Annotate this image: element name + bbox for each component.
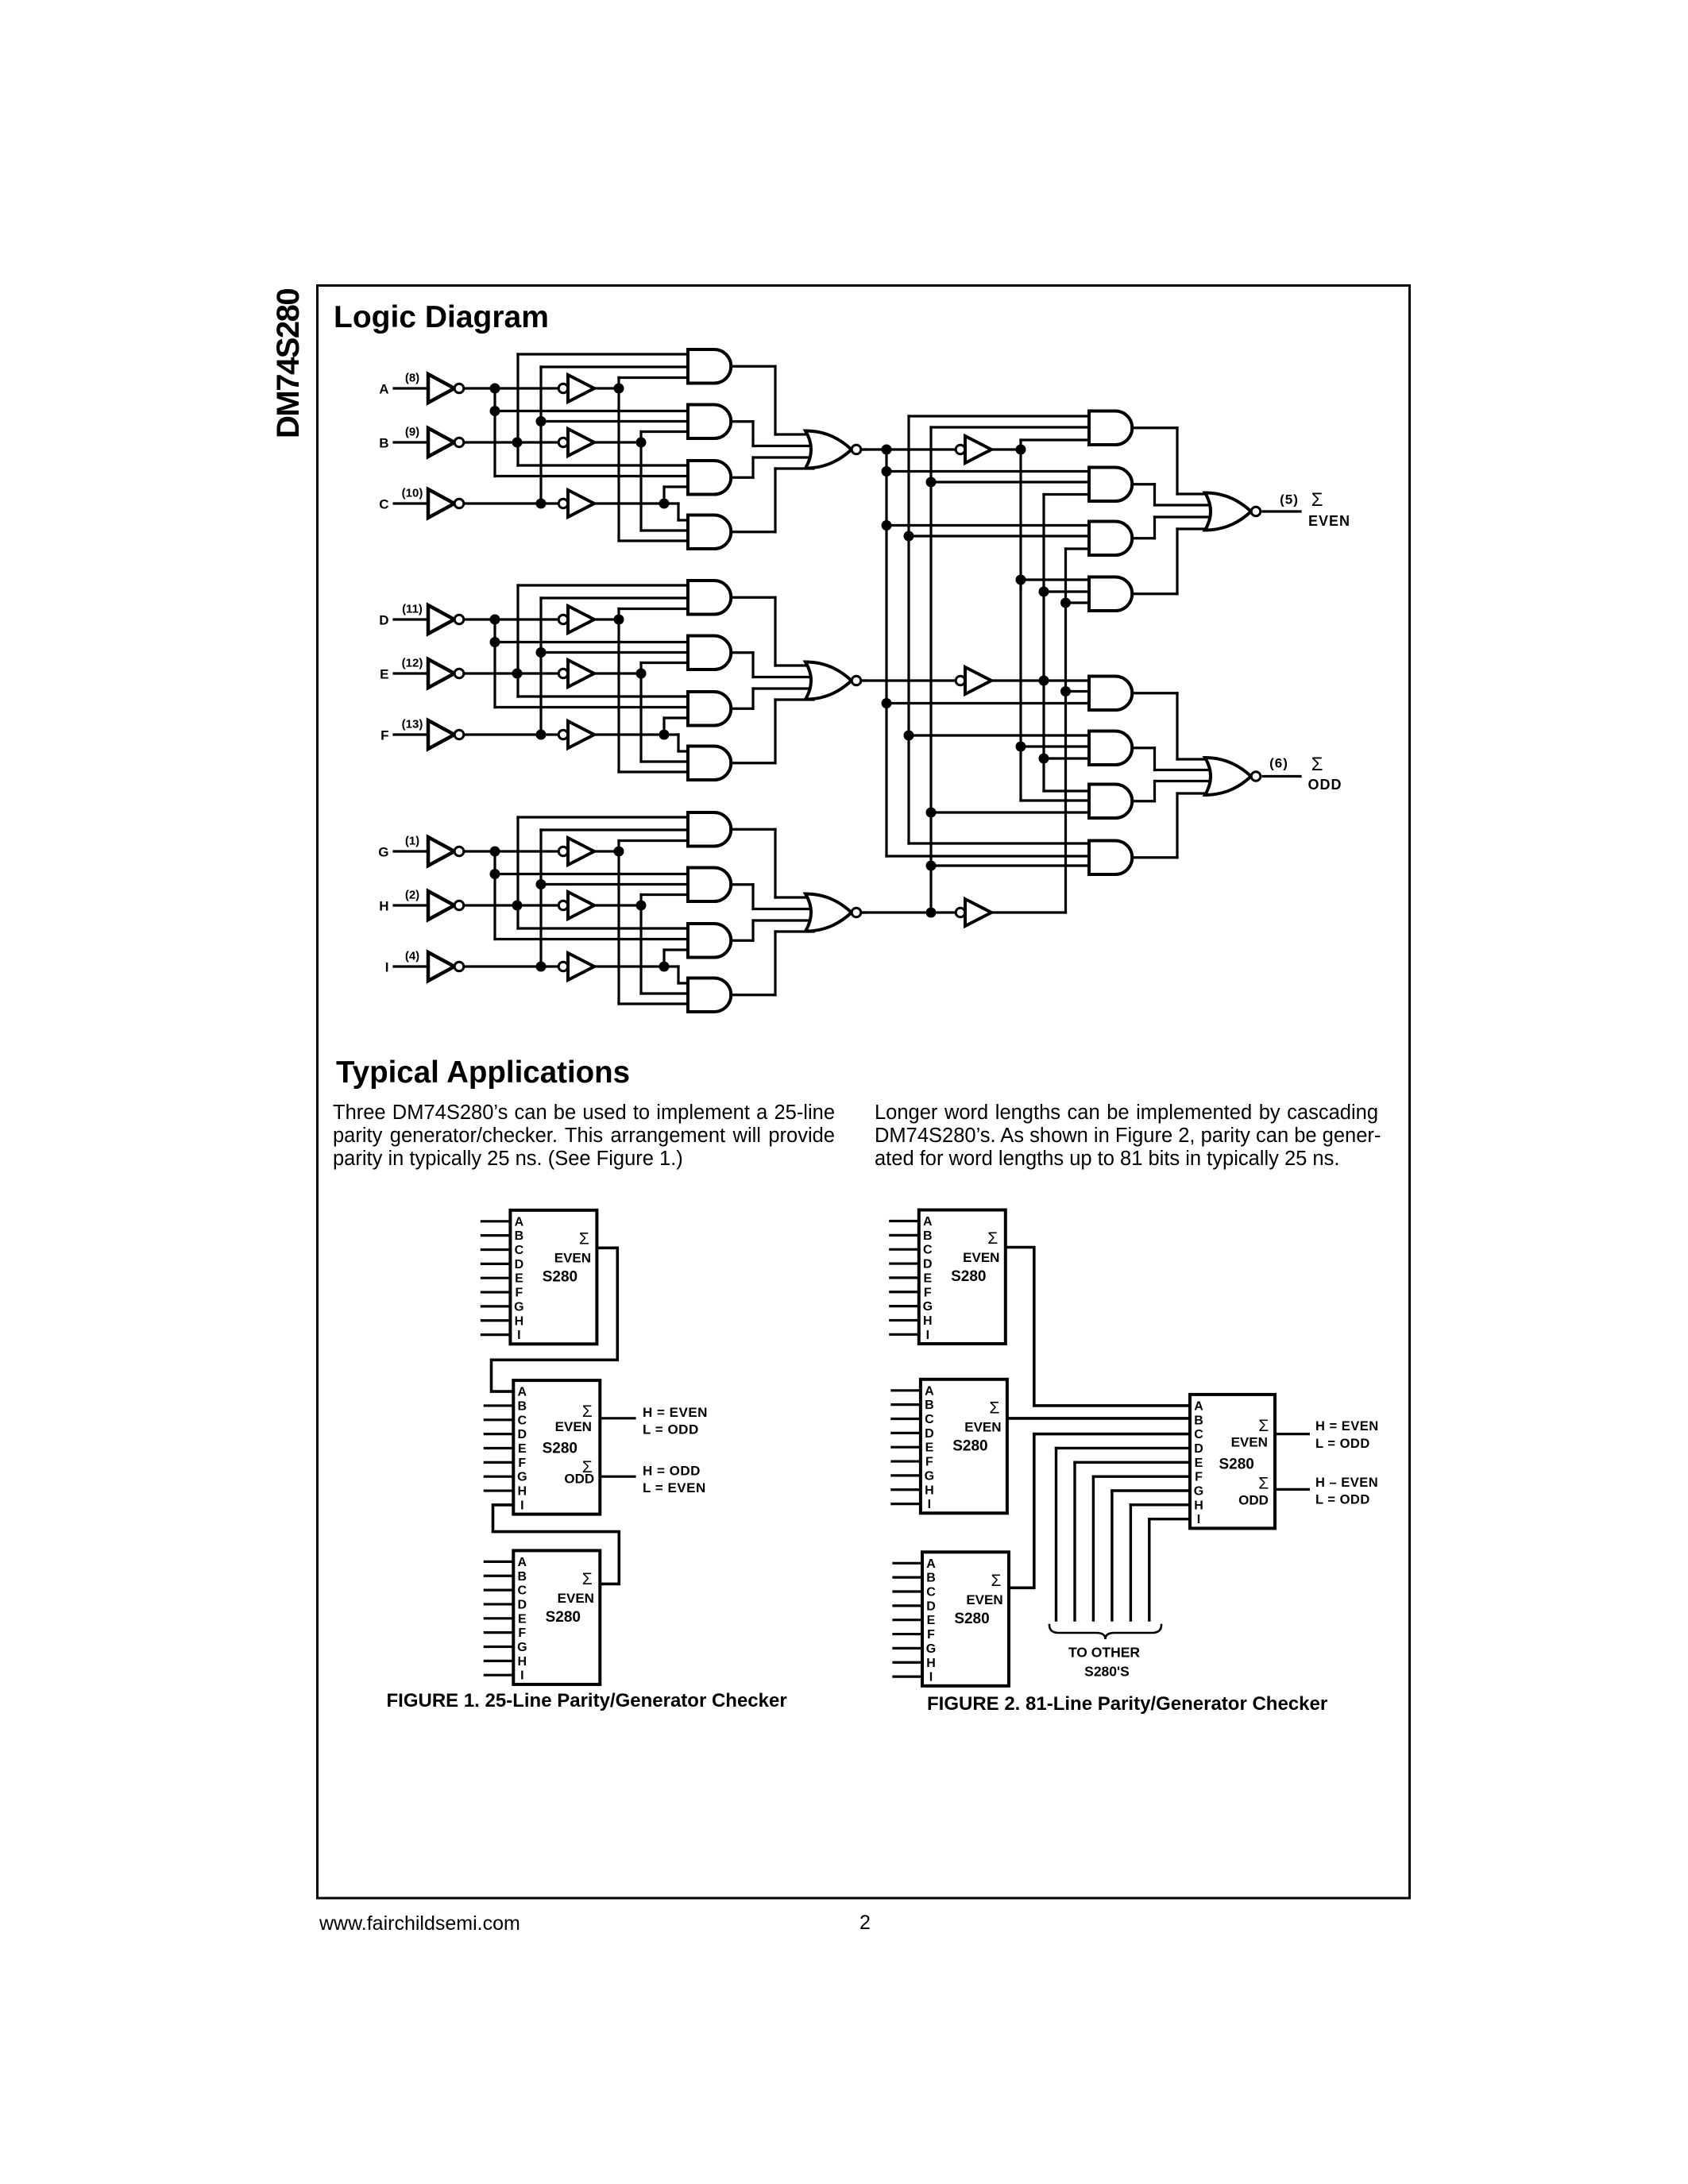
svg-text:(5): (5) <box>1280 492 1299 507</box>
svg-text:S280: S280 <box>546 1609 581 1626</box>
svg-text:Σ: Σ <box>579 1229 589 1248</box>
svg-text:E: E <box>518 1612 527 1626</box>
svg-text:L = EVEN: L = EVEN <box>643 1480 706 1495</box>
svg-text:S280: S280 <box>543 1441 577 1457</box>
svg-text:ODD: ODD <box>1238 1492 1269 1507</box>
svg-text:(6): (6) <box>1269 756 1288 771</box>
svg-text:H = EVEN: H = EVEN <box>643 1405 708 1420</box>
svg-text:Σ: Σ <box>1311 489 1323 511</box>
svg-text:D: D <box>518 1428 527 1441</box>
svg-text:H: H <box>925 1484 934 1497</box>
svg-text:D: D <box>379 613 388 628</box>
svg-text:(10): (10) <box>402 487 423 500</box>
svg-text:EVEN: EVEN <box>963 1250 999 1265</box>
svg-text:F: F <box>924 1286 932 1299</box>
svg-text:EVEN: EVEN <box>966 1592 1002 1607</box>
svg-text:E: E <box>1195 1457 1203 1470</box>
svg-text:S280: S280 <box>951 1268 986 1285</box>
svg-text:C: C <box>923 1244 933 1257</box>
svg-text:G: G <box>514 1300 523 1314</box>
svg-text:EVEN: EVEN <box>964 1419 1001 1434</box>
svg-text:F: F <box>380 728 388 743</box>
svg-text:A: A <box>515 1215 524 1229</box>
svg-text:S280'S: S280'S <box>1084 1664 1130 1680</box>
svg-text:F: F <box>518 1457 526 1470</box>
svg-text:B: B <box>379 436 388 451</box>
svg-text:E: E <box>927 1614 936 1627</box>
svg-text:G: G <box>925 1469 934 1483</box>
svg-text:ODD: ODD <box>564 1472 594 1487</box>
svg-text:(11): (11) <box>402 603 423 616</box>
svg-text:S280: S280 <box>954 1611 989 1627</box>
svg-text:A: A <box>925 1384 934 1398</box>
svg-text:D: D <box>1194 1442 1203 1456</box>
svg-text:Σ: Σ <box>991 1572 1002 1590</box>
svg-text:A: A <box>379 382 388 397</box>
svg-text:S280: S280 <box>543 1268 577 1285</box>
svg-text:Σ: Σ <box>989 1399 999 1417</box>
svg-text:D: D <box>518 1598 527 1611</box>
svg-text:G: G <box>1194 1485 1203 1499</box>
svg-text:H: H <box>379 899 388 914</box>
svg-text:Σ: Σ <box>582 1570 593 1588</box>
svg-text:EVEN: EVEN <box>555 1419 592 1434</box>
svg-text:I: I <box>385 960 389 975</box>
svg-text:C: C <box>515 1244 524 1257</box>
svg-text:I: I <box>1197 1513 1200 1526</box>
svg-text:(1): (1) <box>405 835 419 848</box>
svg-text:I: I <box>926 1329 929 1342</box>
svg-text:H: H <box>515 1314 524 1328</box>
svg-text:FIGURE 2. 81-Line Parity/Gener: FIGURE 2. 81-Line Parity/Generator Check… <box>927 1693 1327 1715</box>
svg-text:H: H <box>1194 1499 1203 1512</box>
svg-text:E: E <box>380 667 388 682</box>
svg-text:C: C <box>926 1586 936 1599</box>
svg-text:G: G <box>517 1641 527 1654</box>
svg-text:F: F <box>516 1287 523 1300</box>
svg-text:Σ: Σ <box>582 1403 593 1421</box>
svg-text:EVEN: EVEN <box>1308 513 1350 529</box>
svg-text:D: D <box>926 1599 936 1613</box>
svg-text:L = ODD: L = ODD <box>1315 1493 1370 1507</box>
svg-text:A: A <box>1194 1399 1203 1413</box>
svg-text:F: F <box>925 1456 933 1469</box>
svg-text:B: B <box>1194 1414 1203 1427</box>
svg-text:Σ: Σ <box>1311 754 1323 775</box>
svg-text:G: G <box>517 1471 527 1484</box>
svg-text:(12): (12) <box>402 657 423 670</box>
svg-text:B: B <box>926 1572 936 1585</box>
svg-text:C: C <box>379 497 388 512</box>
svg-text:(9): (9) <box>405 426 419 439</box>
svg-text:(2): (2) <box>405 889 419 902</box>
svg-text:C: C <box>925 1413 934 1426</box>
svg-text:Σ: Σ <box>1258 1474 1269 1492</box>
svg-text:F: F <box>518 1626 526 1640</box>
svg-text:I: I <box>520 1499 523 1512</box>
svg-text:B: B <box>518 1570 527 1584</box>
svg-text:H: H <box>923 1314 933 1328</box>
svg-text:EVEN: EVEN <box>558 1591 594 1606</box>
svg-text:Σ: Σ <box>987 1229 998 1248</box>
svg-text:I: I <box>520 1669 523 1683</box>
svg-text:B: B <box>515 1229 524 1243</box>
svg-text:EVEN: EVEN <box>1231 1434 1268 1449</box>
svg-text:H – EVEN: H – EVEN <box>1315 1476 1378 1490</box>
svg-text:A: A <box>926 1557 936 1571</box>
svg-text:(8): (8) <box>405 372 419 385</box>
svg-text:S280: S280 <box>952 1437 987 1454</box>
svg-text:H = EVEN: H = EVEN <box>1315 1419 1379 1433</box>
svg-text:TO OTHER: TO OTHER <box>1068 1645 1140 1661</box>
svg-text:ODD: ODD <box>1308 777 1342 793</box>
svg-text:E: E <box>923 1271 932 1285</box>
svg-text:B: B <box>518 1399 527 1413</box>
svg-text:C: C <box>1194 1428 1203 1441</box>
svg-text:F: F <box>927 1628 935 1642</box>
svg-text:H: H <box>518 1485 527 1499</box>
svg-text:G: G <box>923 1300 933 1314</box>
svg-text:F: F <box>1195 1471 1203 1484</box>
svg-text:C: C <box>518 1414 527 1427</box>
svg-text:I: I <box>929 1671 933 1684</box>
svg-text:A: A <box>518 1386 527 1399</box>
svg-text:A: A <box>923 1215 933 1229</box>
svg-text:(13): (13) <box>402 718 423 731</box>
svg-text:E: E <box>515 1272 523 1286</box>
svg-text:H: H <box>926 1657 936 1670</box>
svg-text:E: E <box>925 1441 934 1455</box>
svg-text:I: I <box>517 1329 520 1342</box>
svg-text:H = ODD: H = ODD <box>643 1464 701 1479</box>
svg-text:G: G <box>378 845 388 860</box>
svg-text:EVEN: EVEN <box>554 1250 591 1265</box>
svg-text:C: C <box>518 1584 527 1598</box>
svg-text:(4): (4) <box>405 950 419 963</box>
svg-text:D: D <box>515 1258 524 1271</box>
svg-text:H: H <box>518 1655 527 1669</box>
svg-text:L = ODD: L = ODD <box>1315 1437 1370 1451</box>
svg-text:FIGURE 1. 25-Line Parity/Gener: FIGURE 1. 25-Line Parity/Generator Check… <box>387 1690 787 1711</box>
svg-text:L = ODD: L = ODD <box>643 1422 699 1437</box>
svg-text:I: I <box>928 1498 931 1511</box>
svg-text:B: B <box>925 1399 934 1412</box>
svg-text:B: B <box>923 1229 933 1243</box>
svg-text:S280: S280 <box>1219 1456 1254 1472</box>
svg-text:A: A <box>518 1556 527 1569</box>
svg-text:D: D <box>923 1258 933 1271</box>
svg-text:G: G <box>926 1642 936 1656</box>
svg-text:Σ: Σ <box>1258 1417 1269 1435</box>
svg-text:E: E <box>518 1442 527 1456</box>
svg-text:D: D <box>925 1427 934 1441</box>
